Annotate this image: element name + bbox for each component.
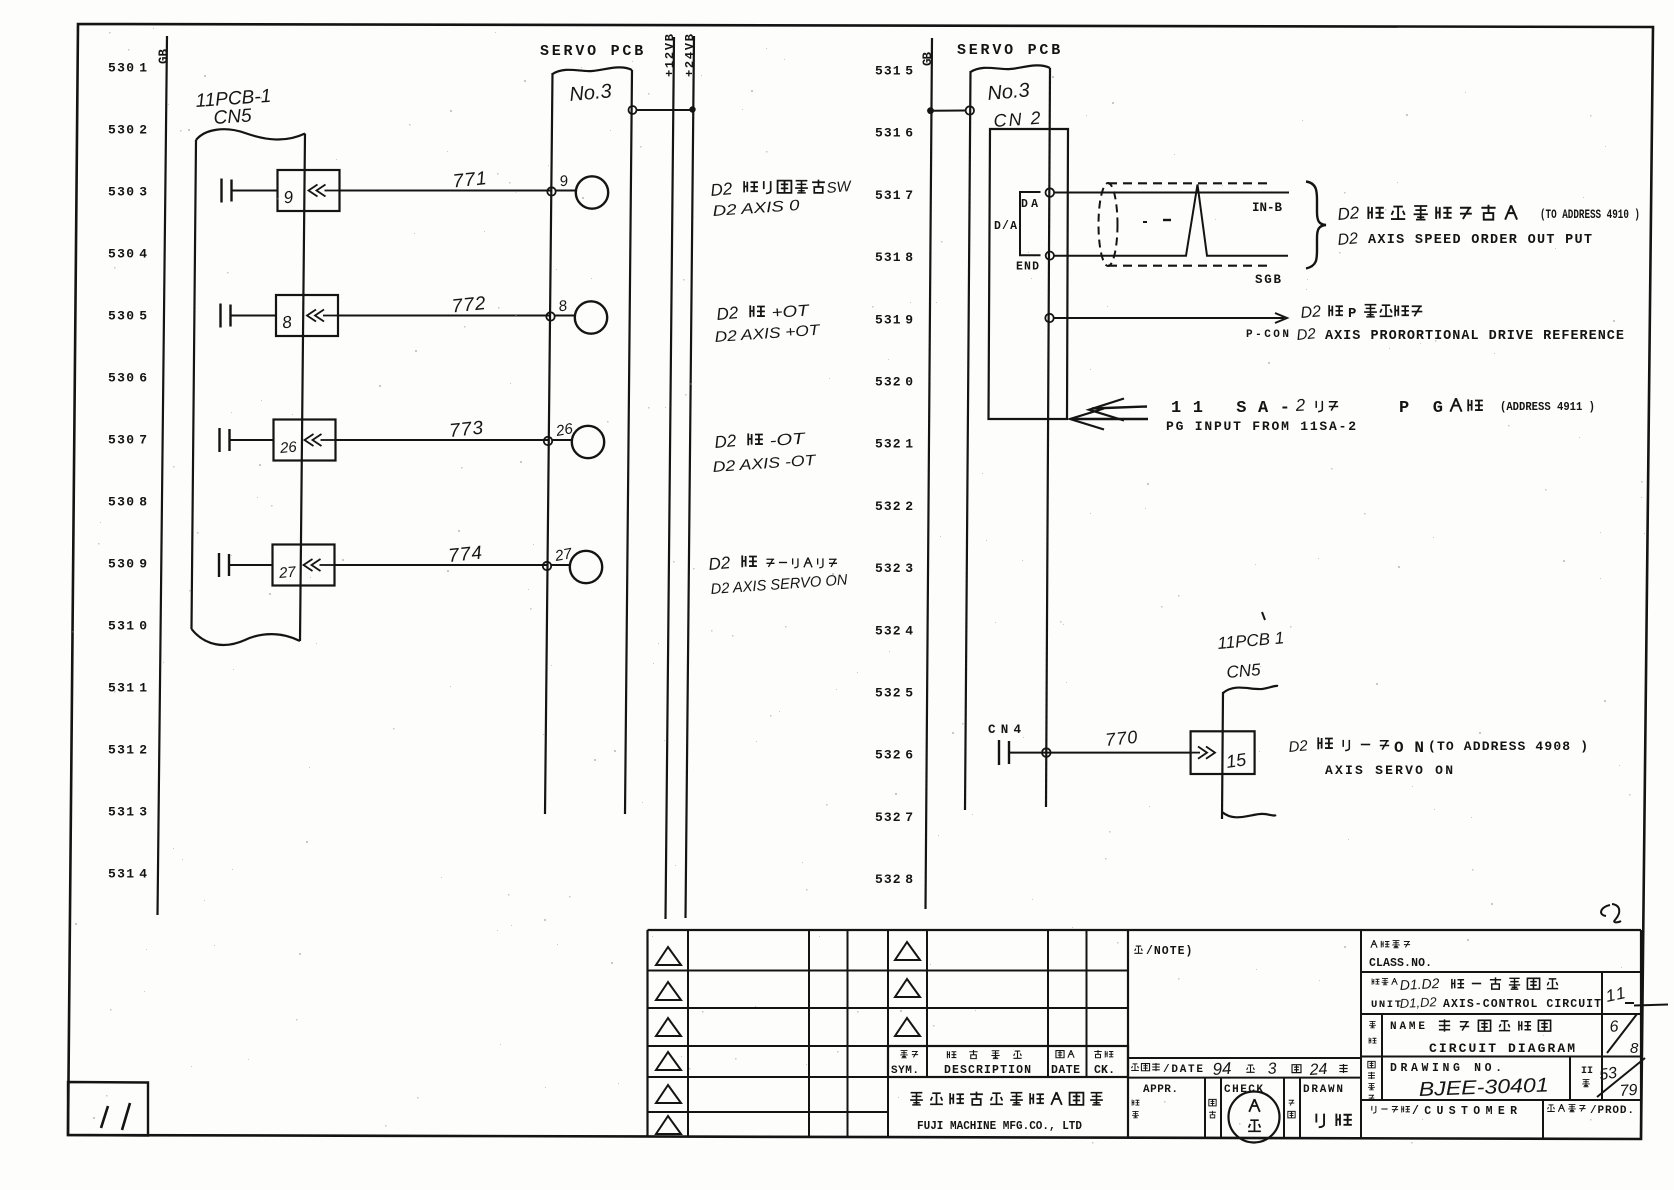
- drawn sig Esaka: [1316, 1114, 1324, 1128]
- svg-text:531 8: 531 8: [875, 250, 913, 265]
- kana: user mei: [1372, 1106, 1376, 1113]
- svg-text:532 8: 532 8: [875, 872, 913, 887]
- title block outer: [646, 930, 648, 1136]
- pin box 9 on CN5: [278, 170, 340, 211]
- svg-text:CN4: CN4: [988, 723, 1021, 737]
- svg-text:531 7: 531 7: [875, 188, 913, 203]
- svg-text:27: 27: [553, 545, 574, 565]
- svg-text:532 2: 532 2: [875, 499, 913, 514]
- handwritten sheet number 11: [101, 1103, 130, 1130]
- wire 773 from box 26 to SERVO PCB pin: [336, 439, 549, 441]
- kanji: kigou: [900, 1051, 908, 1059]
- svg-text:CK.: CK.: [1094, 1064, 1115, 1077]
- svg-text:24: 24: [1308, 1061, 1328, 1079]
- CLASS.NO. cell: [1361, 971, 1641, 973]
- kanji: seisan bangou: [1547, 1105, 1555, 1112]
- wire contact to pin box 8: [232, 315, 277, 317]
- wire 771 from box 9 to SERVO PCB pin: [340, 190, 552, 192]
- svg-text:530 8: 530 8: [108, 495, 147, 510]
- svg-text:530 1: 530 1: [108, 61, 147, 76]
- svg-text:END: END: [1016, 261, 1039, 274]
- svg-text:+24VB: +24VB: [683, 34, 697, 77]
- wire GB to right PCB: [927, 107, 934, 114]
- svg-text:531 6: 531 6: [875, 126, 913, 141]
- pin box 26 on CN5: [274, 420, 336, 461]
- svg-text:532 6: 532 6: [875, 748, 913, 763]
- svg-text:530 2: 530 2: [108, 123, 147, 138]
- contact SW CN4: [998, 740, 1000, 765]
- kanji: Fuji Kikai Seizou KK: [910, 1093, 923, 1106]
- arrowhead into box 26: [305, 434, 314, 446]
- svg-text:DRAWING NO.: DRAWING NO.: [1390, 1062, 1502, 1075]
- kanji: nen-getsu-hi: [1131, 1064, 1139, 1071]
- wire PCB to +24VB rail: [629, 106, 637, 114]
- svg-text:D1.D2: D1.D2: [1399, 975, 1440, 993]
- svg-text:CN5: CN5: [1226, 660, 1262, 682]
- wire contact to pin box 27: [230, 564, 273, 566]
- svg-text:CN 2: CN 2: [993, 108, 1043, 131]
- arrowhead into box 27: [304, 559, 313, 571]
- contact SW row 772 (pin 8): [219, 304, 221, 328]
- junction on PCB edge line: [1042, 748, 1051, 757]
- svg-text:SERVO PCB: SERVO PCB: [957, 42, 1063, 59]
- svg-text:No.3: No.3: [987, 79, 1031, 105]
- kanji: bunrui bangou: [1371, 940, 1377, 948]
- D/A bracket with DA / END pins: [1020, 192, 1041, 255]
- svg-text:531 5: 531 5: [875, 64, 913, 79]
- connector 11PCB-1 CN5 outline (left): [196, 129, 305, 140]
- svg-text:DRAWN: DRAWN: [1303, 1084, 1343, 1096]
- svg-text:2: 2: [1294, 395, 1306, 415]
- svg-text:GB: GB: [921, 52, 935, 66]
- svg-text:15: 15: [1225, 749, 1249, 772]
- kanji: axis: [1329, 305, 1343, 316]
- svg-text:AXIS SPEED ORDER OUT PUT: AXIS SPEED ORDER OUT PUT: [1368, 233, 1592, 248]
- svg-text:D2: D2: [710, 179, 734, 200]
- kanji: axis speed order output: [1368, 207, 1383, 219]
- contact SW row 771 (pin 9): [220, 179, 222, 203]
- svg-text:26: 26: [554, 420, 575, 440]
- kana: yori: [1316, 401, 1322, 412]
- right info area verticals: [1360, 930, 1362, 1139]
- svg-text:IN-B: IN-B: [1252, 201, 1282, 215]
- handwritten page mark 53: [1601, 904, 1621, 922]
- svg-text:SERVO PCB: SERVO PCB: [540, 43, 646, 60]
- svg-text:530 7: 530 7: [108, 433, 147, 448]
- wire 772 from box 8 to SERVO PCB pin: [338, 315, 551, 317]
- svg-text:D/A: D/A: [994, 220, 1017, 233]
- kanji: denki kairo senzu: [1439, 1019, 1450, 1031]
- svg-text:6: 6: [1609, 1018, 1619, 1036]
- svg-text:532 3: 532 3: [875, 561, 913, 576]
- kana: servo: [1343, 740, 1349, 751]
- right margin tick: [1634, 1005, 1668, 1006]
- svg-text:531 2: 531 2: [108, 743, 147, 758]
- svg-text:AXIS PRORORTIONAL DRIVE REFERE: AXIS PRORORTIONAL DRIVE REFERENCE: [1325, 329, 1624, 344]
- pin box 8 on CN5: [276, 295, 338, 336]
- svg-text:530 3: 530 3: [108, 185, 147, 200]
- svg-text:531 4: 531 4: [108, 867, 147, 882]
- svg-text:8: 8: [1630, 1040, 1639, 1057]
- junction END pin: [1046, 252, 1054, 260]
- wire P-CON with arrow: [1054, 317, 1284, 319]
- kanji: axis control circuit: [1452, 979, 1464, 989]
- arrowhead into box 15: [1191, 752, 1200, 754]
- svg-text:+OT: +OT: [771, 302, 811, 322]
- svg-text:531 0: 531 0: [108, 619, 147, 634]
- wire contact to pin box 9: [233, 190, 278, 192]
- sheet number box: [68, 1082, 148, 1136]
- svg-text:/CUSTOMER: /CUSTOMER: [1412, 1105, 1517, 1118]
- svg-text:BJEE-30401: BJEE-30401: [1418, 1074, 1549, 1101]
- shielded-cable dashed outline: [1099, 183, 1118, 266]
- svg-text:+12VB: +12VB: [663, 34, 677, 77]
- kanji: teisei kiroku: [947, 1051, 956, 1058]
- wire 774 from box 27 to SERVO PCB pin: [335, 564, 548, 566]
- power rail +12VB: [666, 37, 675, 919]
- pin circle 26 on SERVO PCB No.3: [572, 426, 604, 458]
- svg-text:532 4: 532 4: [875, 623, 913, 638]
- svg-text:532 5: 532 5: [875, 686, 913, 701]
- svg-text:APPR.: APPR.: [1143, 1084, 1178, 1096]
- pin box 15: [1191, 731, 1255, 774]
- junction on PCB edge pin 9: [547, 187, 555, 195]
- svg-text:P: P: [1348, 306, 1356, 322]
- wire 770: [1010, 752, 1191, 754]
- kanji: axis: [748, 433, 763, 445]
- contact SW row 774 (pin 27): [218, 553, 220, 577]
- svg-text:3: 3: [1267, 1060, 1277, 1078]
- svg-text:P-CON: P-CON: [1246, 329, 1289, 341]
- kanji: axis zero set: [744, 181, 758, 192]
- svg-text:CN5: CN5: [213, 105, 253, 129]
- big curly brace: [1306, 182, 1326, 269]
- svg-text:SW: SW: [826, 178, 853, 197]
- svg-text:532 0: 532 0: [875, 375, 913, 390]
- svg-text:-OT: -OT: [769, 430, 807, 450]
- svg-text:771: 771: [452, 168, 489, 193]
- junction DA pin: [1046, 188, 1055, 197]
- svg-text:D2: D2: [1300, 303, 1322, 322]
- pin circle 27 on SERVO PCB No.3: [570, 551, 602, 583]
- svg-text:770: 770: [1104, 727, 1139, 750]
- DATE row: [1128, 1057, 1361, 1059]
- svg-text:/PROD.: /PROD.: [1590, 1105, 1634, 1117]
- contact SW row 773 (pin 26): [218, 428, 220, 452]
- CUSTOMER row: [1361, 1099, 1641, 1101]
- junction on PCB edge pin 8: [546, 312, 554, 320]
- junction P-CON pin: [1045, 314, 1053, 322]
- svg-text:531 1: 531 1: [108, 681, 147, 696]
- svg-text:(ADDRESS 4911 ): (ADDRESS 4911 ): [1500, 401, 1595, 414]
- NOTE text: [1134, 946, 1142, 953]
- svg-text:531 3: 531 3: [108, 805, 147, 820]
- wire SGB with shield spike: [1054, 185, 1288, 256]
- wire IN-B: [1054, 192, 1289, 194]
- svg-text:79: 79: [1619, 1082, 1638, 1100]
- svg-text:No.3: No.3: [569, 80, 613, 106]
- pin box 27 on CN5: [273, 545, 335, 586]
- svg-text:GB: GB: [157, 49, 171, 64]
- revision triangles col 1: [656, 947, 681, 965]
- APPR/CHECK/DRAWN row: [1204, 1078, 1206, 1139]
- pin circle 9 on SERVO PCB No.3: [576, 176, 608, 208]
- svg-text:D2: D2: [714, 431, 738, 452]
- svg-text:AXIS-CONTROL CIRCUIT: AXIS-CONTROL CIRCUIT: [1443, 998, 1601, 1011]
- svg-text:94: 94: [1212, 1059, 1232, 1079]
- junction on PCB edge pin 26: [544, 437, 552, 445]
- svg-text:530 5: 530 5: [108, 309, 147, 324]
- svg-text:532 1: 532 1: [875, 437, 913, 452]
- revision triangles col 2: [895, 942, 920, 960]
- svg-text:D1,D2: D1,D2: [1399, 994, 1437, 1011]
- svg-text:531 9: 531 9: [875, 312, 913, 327]
- svg-text:CLASS.NO.: CLASS.NO.: [1369, 957, 1432, 970]
- svg-text:(TO ADDRESS 4908 ): (TO ADDRESS 4908 ): [1428, 739, 1588, 754]
- check stamp circle Yamamoto: [1229, 1092, 1280, 1143]
- kanji: axis: [742, 555, 757, 567]
- svg-text:D2: D2: [716, 303, 740, 324]
- kanji: tantou: [1094, 1050, 1102, 1058]
- DRAWING NO row: [1569, 1057, 1571, 1101]
- svg-text:SYM.: SYM.: [891, 1065, 919, 1077]
- svg-text:D2: D2: [1296, 325, 1317, 344]
- net label GB left (rotated): [157, 49, 171, 64]
- title block horizontals: [648, 929, 1642, 931]
- net GB right vertical bus: [926, 38, 933, 909]
- svg-text:UNIT: UNIT: [1371, 999, 1401, 1011]
- kanji: kishu-mei: [1372, 979, 1379, 985]
- kanji: axis: [1318, 737, 1333, 749]
- svg-text:26: 26: [278, 439, 298, 458]
- svg-text:(TO ADDRESS 4910 ): (TO ADDRESS 4910 ): [1540, 207, 1640, 222]
- svg-text:SGB: SGB: [1255, 273, 1281, 287]
- svg-text:DATE: DATE: [1051, 1064, 1080, 1077]
- junction on PCB edge pin 27: [543, 562, 551, 570]
- UNIT row: [1361, 1013, 1641, 1015]
- svg-text:772: 772: [451, 293, 488, 318]
- svg-text:/DATE: /DATE: [1163, 1064, 1203, 1076]
- svg-text:DESCRIPTION: DESCRIPTION: [944, 1064, 1031, 1077]
- pin circle 8 on SERVO PCB No.3: [575, 301, 607, 333]
- small dash marks inside cable: [1143, 221, 1147, 223]
- svg-text:530 4: 530 4: [108, 247, 147, 262]
- kanji: hizuke: [1056, 1051, 1064, 1058]
- kanji: input: [1450, 398, 1461, 412]
- svg-text:II: II: [1581, 1066, 1593, 1077]
- kanji: axis: [750, 305, 765, 317]
- svg-text:27: 27: [277, 564, 297, 583]
- net GB left vertical bus: [158, 36, 168, 915]
- wire contact to pin box 26: [231, 439, 274, 441]
- kana: servo lock: [766, 559, 774, 567]
- arrowhead into box 8: [307, 310, 316, 322]
- svg-text:532 7: 532 7: [875, 810, 913, 825]
- power rail +24VB: [686, 36, 695, 918]
- NAME row: [1361, 1056, 1641, 1058]
- connector CN2 box: [989, 129, 1069, 419]
- svg-text:D2: D2: [1337, 230, 1359, 249]
- net label GB right (rotated): [921, 52, 935, 66]
- svg-text:/NOTE): /NOTE): [1146, 945, 1193, 958]
- kanji: action order: [1364, 305, 1377, 318]
- svg-text:CIRCUIT DIAGRAM: CIRCUIT DIAGRAM: [1429, 1041, 1575, 1056]
- svg-text:D2: D2: [1288, 737, 1309, 756]
- svg-text:530 6: 530 6: [108, 371, 147, 386]
- svg-text:D2: D2: [708, 553, 732, 574]
- svg-text:D2: D2: [1337, 203, 1361, 224]
- arrowhead into box 9: [309, 185, 318, 197]
- svg-text:FUJI MACHINE MFG.CO., LTD: FUJI MACHINE MFG.CO., LTD: [917, 1120, 1082, 1133]
- PG input arrows: [1092, 407, 1147, 409]
- svg-text:774: 774: [447, 542, 484, 567]
- svg-text:773: 773: [448, 417, 485, 442]
- svg-text:530 9: 530 9: [108, 557, 147, 572]
